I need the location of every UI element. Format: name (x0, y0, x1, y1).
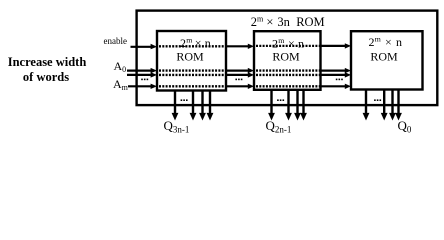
arrowhead Am into ROM3 (345, 84, 351, 89)
wire A1 ROM1 to ROM2 (226, 74, 248, 76)
arrowhead A0 into ROM1 (151, 68, 157, 73)
outer box 2^m x 3n ROM (137, 11, 438, 106)
svg-text:of words: of words (23, 70, 69, 84)
wire down from ROM3 a (365, 90, 367, 115)
wire A0 ROM1 to ROM2 (226, 69, 248, 71)
wire enable from label to ROM1 (131, 46, 152, 48)
svg-text:2m×n: 2m×n (180, 36, 211, 50)
wire Am dotted through ROM2 (256, 85, 320, 87)
wire Q0 down from ROM3 (397, 90, 399, 115)
wire enable ROM1 to ROM2 (226, 45, 248, 47)
wire A1 dotted through ROM2 (256, 74, 320, 76)
wire A1 dotted through ROM1 (159, 74, 225, 76)
wire A1 from left to ROM1 (127, 74, 151, 76)
wire ROM2 output b (287, 90, 289, 114)
svg-text:2m×n: 2m×n (272, 36, 304, 50)
wire A0 ROM2 to ROM3 (321, 69, 346, 71)
wire A0 from label to ROM1 (127, 69, 151, 71)
ellipsis between A1 and Am between ROM2 and ROM3 (336, 79, 343, 81)
wire ROM3 output c (391, 90, 393, 115)
wire ROM2 output d (302, 90, 304, 114)
arrowhead enable into ROM1 (151, 44, 157, 49)
ellipsis between A1 and Am between ROM1 and ROM2 (235, 79, 242, 81)
ellipsis between A1 and Am left margin (141, 79, 148, 81)
output wires ROM3 (363, 90, 402, 121)
output wires ROM2 (268, 90, 307, 121)
svg-text:ROM: ROM (272, 50, 300, 64)
wire enable ROM2 to ROM3 (321, 45, 346, 47)
wire enable dotted through ROM2 (256, 45, 320, 47)
ROM block 3 (351, 31, 423, 89)
wire Q3n-1 down from ROM1 (174, 91, 176, 115)
svg-text:Increase width: Increase width (8, 55, 87, 69)
wire ROM3 output b (383, 90, 385, 115)
svg-text:ROM: ROM (370, 50, 398, 64)
arrowhead A1 into ROM3 (345, 72, 351, 77)
wire A1 ROM2 to ROM3 (321, 74, 346, 76)
wire ROM1 output d (209, 91, 211, 115)
arrowhead A0 into ROM2 (248, 68, 254, 73)
arrowhead A1 into ROM2 (248, 72, 254, 77)
arrowhead Am into ROM2 (248, 84, 254, 89)
arrowhead enable into ROM2 (248, 44, 254, 49)
wire Am dotted through ROM1 (159, 85, 225, 87)
ellipsis ROM1 outputs (181, 99, 188, 101)
wire ROM1 output b (192, 91, 194, 115)
wire Am ROM1 to ROM2 (226, 85, 248, 87)
wire ROM1 output c (201, 91, 203, 115)
wire ROM2 output c (296, 90, 298, 114)
wire A0 dotted through ROM1 (159, 69, 225, 71)
svg-text:2m×n: 2m×n (369, 34, 403, 48)
arrowhead A0 into ROM3 (345, 68, 351, 73)
arrowhead enable into ROM3 (345, 43, 351, 48)
arrowhead Am into ROM1 (151, 84, 157, 89)
caption "Increase width of words" (8, 55, 87, 84)
wire Q2n-1 down from ROM2 (270, 90, 272, 114)
ellipsis ROM3 outputs (374, 99, 381, 101)
svg-text:ROM: ROM (176, 49, 204, 63)
wire Am from label to ROM1 (128, 85, 151, 87)
wire Am ROM2 to ROM3 (321, 85, 346, 87)
arrowhead A1 into ROM1 (151, 72, 157, 77)
ROM block 1 (157, 31, 226, 91)
ellipsis ROM2 outputs (277, 99, 284, 101)
ROM block 2 (254, 31, 321, 90)
wire A0 dotted through ROM2 (256, 69, 320, 71)
wire enable dotted through ROM1 (159, 45, 225, 47)
output wires ROM1 (172, 91, 214, 121)
svg-text:enable: enable (104, 36, 127, 46)
